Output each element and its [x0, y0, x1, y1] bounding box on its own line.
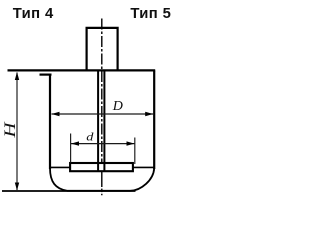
d dimension extension line right [134, 138, 136, 165]
impeller blade [70, 163, 133, 171]
left flange ledge (Тип 4) [40, 73, 52, 75]
H dimension line [16, 73, 18, 191]
svg-text:d: d [86, 130, 94, 143]
svg-text:D: D [112, 99, 123, 114]
left vessel wall [49, 74, 51, 169]
svg-text:Тип 5: Тип 5 [130, 6, 171, 22]
H dimension arrow down [15, 183, 19, 191]
H dimension arrow up [15, 72, 19, 80]
D dimension left arrow [52, 112, 60, 116]
svg-text:Тип 4: Тип 4 [13, 6, 54, 22]
svg-text:H: H [1, 121, 19, 139]
vessel rim line [8, 69, 156, 71]
shaft centerline upper [101, 19, 103, 172]
right vessel wall [153, 71, 155, 170]
d dimension right arrow [127, 141, 135, 145]
shaft centerline lower [101, 171, 103, 195]
ground baseline [2, 190, 136, 192]
D dimension right arrow [145, 112, 153, 116]
agitator shaft left edge [97, 71, 99, 171]
d dimension extension line left [70, 134, 72, 163]
d dimension line [71, 143, 135, 145]
D dimension line [52, 113, 154, 115]
d dimension left arrow [71, 141, 79, 145]
dished bottom [50, 168, 154, 191]
drive housing box [87, 28, 118, 71]
agitator shaft right edge [103, 71, 105, 171]
bottom tangent line [50, 166, 154, 168]
